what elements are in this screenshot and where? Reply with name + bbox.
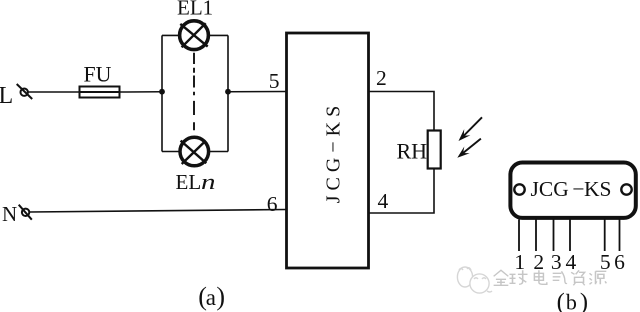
wire pin 2 to RH — [369, 92, 435, 131]
svg-text:FU: FU — [84, 62, 112, 86]
wire N to box pin 6 — [30, 210, 287, 213]
pin 2 — [535, 220, 537, 252]
svg-text:RH: RH — [397, 139, 428, 164]
lamp ELn — [162, 137, 228, 166]
fuse FU — [80, 87, 120, 98]
svg-text:3: 3 — [551, 250, 562, 274]
wire lamp branch right vertical — [227, 35, 229, 151]
svg-text:6: 6 — [267, 192, 278, 216]
light arrow 1 — [459, 117, 483, 141]
svg-text:5: 5 — [600, 250, 611, 274]
light arrow 2 — [457, 139, 481, 158]
svg-text:N: N — [2, 202, 17, 226]
pin 1 — [518, 220, 520, 252]
svg-text:5: 5 — [269, 69, 280, 93]
controller box JCG-KS — [287, 33, 369, 268]
svg-text:4: 4 — [378, 189, 389, 213]
pin 4 — [569, 220, 571, 252]
svg-text:n: n — [201, 169, 216, 194]
svg-text:(b): (b) — [557, 289, 588, 312]
wire lamp branch left vertical — [161, 35, 163, 151]
svg-text:L: L — [0, 83, 13, 109]
pin 3 — [553, 220, 555, 252]
wire fuse to lamp branch — [120, 91, 163, 93]
watermark text (stylized CJK) — [494, 270, 607, 285]
terminal L — [17, 84, 33, 99]
pin 5 — [604, 220, 606, 252]
label ELn — [176, 169, 216, 194]
svg-text:(a): (a) — [198, 282, 225, 311]
junction dot left — [159, 89, 165, 95]
photoresistor RH — [428, 131, 441, 169]
package mounting hole left — [514, 184, 524, 194]
package mounting hole right — [621, 184, 631, 194]
svg-text:4: 4 — [566, 250, 577, 274]
svg-text:6: 6 — [614, 250, 625, 274]
terminal N — [19, 205, 32, 220]
svg-text:2: 2 — [376, 66, 387, 90]
wire L to fuse — [29, 91, 80, 93]
svg-text:1: 1 — [514, 250, 525, 274]
junction dot right — [225, 89, 231, 95]
svg-text:EL1: EL1 — [177, 0, 213, 20]
wire RH to pin 4 — [369, 169, 435, 214]
dashed line more lamps — [193, 53, 195, 130]
watermark logo bubbles — [457, 267, 492, 293]
svg-text:EL: EL — [176, 170, 202, 194]
svg-text:JCG−KS: JCG−KS — [322, 101, 344, 203]
wire lamp branch to box pin 5 — [228, 91, 287, 93]
package body JCG-KS — [510, 163, 635, 218]
lamp EL1 — [162, 21, 228, 50]
pin 6 — [619, 220, 621, 252]
